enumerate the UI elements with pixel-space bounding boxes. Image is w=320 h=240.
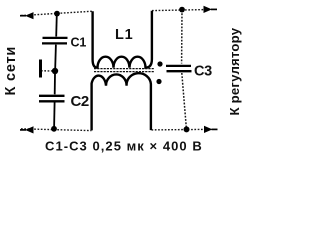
capacitor C2 plates: [39, 96, 65, 102]
arrow bottom-right regulator terminal: [204, 126, 218, 133]
svg-text:C1: C1: [71, 35, 87, 49]
inductor L1 core lines: [94, 69, 154, 72]
arrow bottom-left mains terminal: [20, 126, 34, 133]
wire C2 upper lead: [54, 74, 56, 95]
wire C1 upper lead: [55, 14, 58, 37]
node A middle-left junction: [52, 68, 58, 74]
arrow top-left mains terminal: [20, 12, 34, 19]
wire top rail right segment: [152, 10, 204, 11]
phase dot bottom winding: [156, 79, 161, 84]
phase dot top winding: [157, 61, 162, 66]
wire C1 lower lead: [54, 45, 57, 69]
wire bottom rail right segment: [152, 128, 206, 131]
mains middle terminal bar: [39, 60, 42, 78]
wire top rail left segment: [21, 11, 93, 15]
node top-right junction: [179, 7, 185, 13]
wire C3 lower lead: [182, 73, 187, 128]
svg-text:L1: L1: [115, 27, 134, 43]
inductor L1 bottom winding: [92, 73, 151, 130]
svg-text:C3: C3: [194, 64, 212, 80]
capacitor C3 plates: [166, 66, 192, 71]
svg-text:С1-С3 0,25 мк × 400 В: С1-С3 0,25 мк × 400 В: [45, 139, 203, 154]
inductor L1 top winding: [93, 11, 152, 68]
node bottom-left junction: [51, 126, 57, 132]
arrow top-right regulator terminal: [204, 6, 218, 13]
capacitor C1 plates: [42, 38, 68, 44]
wire C3 upper lead: [181, 10, 183, 64]
svg-text:C2: C2: [71, 93, 89, 110]
wire from mains middle bar to node A: [41, 70, 55, 72]
svg-text:К сети: К сети: [3, 46, 19, 96]
wire bottom rail left segment: [21, 129, 92, 131]
node bottom-right junction: [184, 126, 190, 132]
wire C2 lower lead: [53, 103, 56, 128]
svg-text:К регулятору: К регулятору: [227, 27, 242, 115]
node top-left junction: [54, 11, 60, 17]
